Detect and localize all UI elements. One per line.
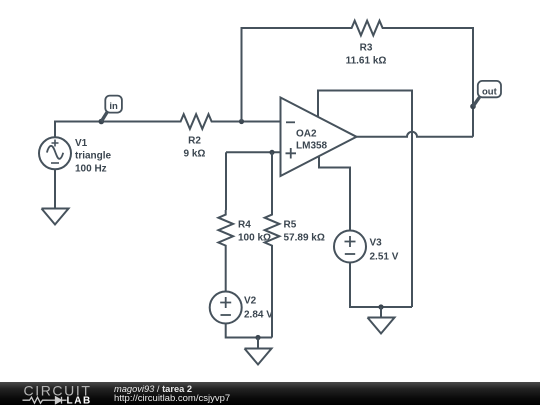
footer bar <box>0 382 540 405</box>
svg-text:R5: R5 <box>284 220 297 231</box>
op-amp OA2 <box>281 98 357 177</box>
CircuitLab logo <box>0 382 110 405</box>
label V3 <box>370 238 399 263</box>
resistor R2 <box>176 114 216 129</box>
voltage source V1 <box>39 137 71 169</box>
wire R4 to V2 <box>225 250 227 292</box>
node junction + input / R5 branch <box>269 150 274 155</box>
wire junction up to R3 left <box>242 28 348 122</box>
label OA2 <box>296 129 328 152</box>
svg-text:100 Hz: 100 Hz <box>75 163 107 174</box>
node junction V2 / R5 / ground <box>255 335 260 340</box>
svg-text:R2: R2 <box>188 136 201 147</box>
net flag in <box>99 96 122 125</box>
svg-text:V1: V1 <box>75 138 88 149</box>
wire R5 bottom <box>271 250 273 338</box>
svg-text:9 kΩ: 9 kΩ <box>184 149 206 160</box>
wire V1 top to R2 left <box>55 122 176 138</box>
label V2 <box>244 296 273 321</box>
wire op-amp V+ supply <box>318 91 412 308</box>
ground under V2 branch <box>245 338 272 365</box>
voltage source V2 <box>210 292 242 324</box>
wire R5 top <box>271 152 273 210</box>
svg-text:57.89 kΩ: 57.89 kΩ <box>284 233 325 244</box>
label R5 <box>284 220 325 244</box>
wire op-amp non-inverting input <box>226 151 281 153</box>
wire V2 to ground junction <box>226 324 272 338</box>
node junction V3 / supply / ground <box>378 304 383 309</box>
wire V1 to ground <box>54 169 56 208</box>
label V1 <box>75 138 112 174</box>
voltage source V3 <box>334 231 366 263</box>
wire down to R4 <box>225 152 227 210</box>
label R3 <box>346 43 387 67</box>
svg-text:V3: V3 <box>370 238 383 249</box>
svg-text:2.51 V: 2.51 V <box>370 252 399 263</box>
ground right <box>368 307 395 334</box>
svg-text:11.61 kΩ: 11.61 kΩ <box>346 56 387 67</box>
wire op-amp V- supply to V3 <box>319 156 350 231</box>
svg-text:LAB: LAB <box>67 395 92 405</box>
svg-text:R3: R3 <box>360 43 373 54</box>
svg-text:in: in <box>109 101 118 112</box>
svg-text:triangle: triangle <box>75 151 112 162</box>
resistor R3 <box>347 21 387 36</box>
svg-text:2.84 V: 2.84 V <box>244 310 273 321</box>
wire V3 to ground rail <box>350 263 412 308</box>
label R2 <box>184 136 206 160</box>
node junction R2 / R3 branch <box>239 119 244 124</box>
svg-text:V2: V2 <box>244 296 257 307</box>
wire op-amp output to out corner (hop over supply wire) <box>357 132 474 137</box>
footer title text <box>114 384 192 394</box>
resistor R5 <box>265 210 280 250</box>
svg-text:OA2: OA2 <box>296 129 317 140</box>
net flag out <box>470 81 501 109</box>
ground left <box>42 209 69 225</box>
footer url text <box>114 394 230 404</box>
label R4 <box>238 220 271 244</box>
wire R3 right down to output <box>384 28 473 137</box>
resistor R4 <box>218 210 233 250</box>
svg-text:R4: R4 <box>238 220 251 231</box>
svg-text:out: out <box>482 86 498 97</box>
svg-text:LM358: LM358 <box>296 141 328 152</box>
wire R2 to op-amp inverting input <box>213 121 281 123</box>
